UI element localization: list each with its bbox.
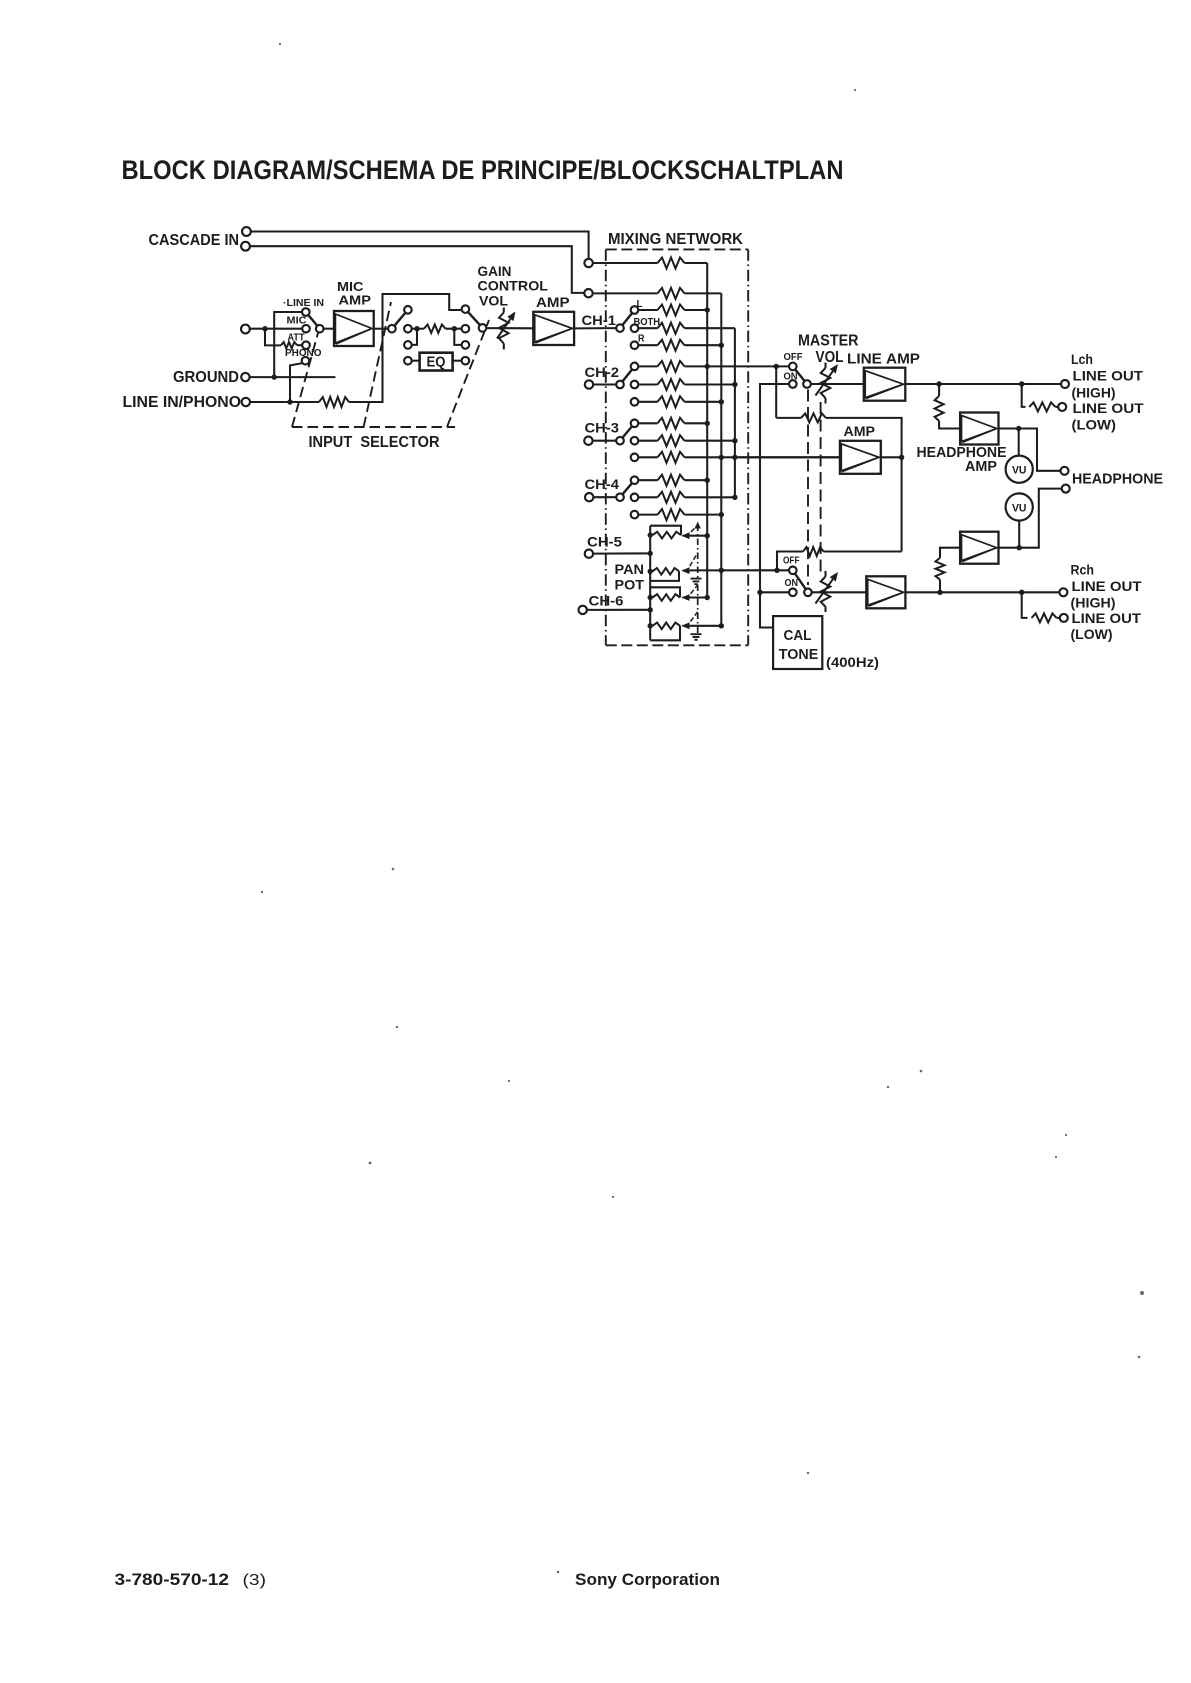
contact: MIC	[302, 325, 310, 333]
dashed outline: INPUT SELECTOR left slant	[292, 333, 318, 427]
contact: ATT	[302, 341, 310, 349]
dashed outline: mixing network left	[605, 249, 607, 645]
svg-text:INPUT SELECTOR: INPUT SELECTOR	[309, 434, 440, 451]
terminal: CH-2 input	[585, 380, 593, 388]
wire: mixing CH-4 R to bus	[685, 514, 722, 516]
contact: CH-3 L	[631, 420, 639, 428]
contact: post-amp direct	[404, 325, 412, 333]
wire: MIC AMP output	[374, 328, 388, 330]
node: cal tone to Rch ON	[757, 590, 762, 595]
wire: direct row left lead	[412, 328, 424, 330]
svg-text:VU: VU	[1012, 502, 1027, 514]
ground: pan CH-6	[691, 634, 702, 640]
pot wiper arrow: master vol Rch	[816, 579, 833, 603]
resistor: mixing CH-4 R	[658, 509, 685, 520]
node: CH-4 L at x=707.2	[705, 478, 710, 483]
svg-text:CAL: CAL	[784, 628, 812, 644]
wire: Rch hp feed resistor leads	[939, 580, 941, 593]
wire: CH-4 input to common	[593, 496, 616, 498]
terminal: cascade in lower	[241, 242, 250, 251]
svg-text:CONTROL: CONTROL	[478, 278, 549, 294]
contact: CH-4 L	[631, 476, 639, 484]
resistor: mixing CH-1 BOTH	[658, 323, 685, 334]
svg-text:ON: ON	[785, 578, 799, 589]
wire: VU2 link	[1018, 521, 1020, 548]
node: pan CH-6 L wiper bus	[705, 595, 710, 600]
wire: Rch bleed to OFF row	[777, 552, 803, 571]
wire: Lch bleed lead	[776, 417, 801, 419]
pot wiper: pan CH-6 R	[683, 625, 691, 627]
potentiometer: pan CH-6 R	[653, 623, 681, 630]
contact: post-amp EQ left	[404, 357, 412, 365]
terminal: cascade right lower	[584, 289, 592, 297]
svg-text:(HIGH): (HIGH)	[1072, 386, 1116, 402]
wire: CH-6 pot top loop	[650, 587, 680, 597]
svg-text:(LOW): (LOW)	[1072, 418, 1117, 434]
terminal: CH-6 input	[579, 606, 587, 614]
svg-text:CH-4: CH-4	[585, 477, 620, 492]
op-amp: headphone AMP Rch	[960, 532, 998, 564]
terminal: Lch line out high	[1061, 380, 1069, 388]
switch: Lch master common	[803, 380, 811, 388]
wire+resistor: mixing CH-4 L	[638, 479, 657, 481]
wire: Lch hp feed into amp	[939, 421, 960, 429]
wire: Rch hp feed into amp	[940, 548, 960, 558]
node: CH-2 L / Lch master feed at x=776.2	[774, 364, 779, 369]
wire+resistor: mixing CH-3 BOTH	[638, 440, 657, 442]
svg-text:L: L	[637, 299, 643, 310]
node: pan input vertical y=535.1	[648, 532, 653, 537]
wire: VU1 link	[1018, 429, 1020, 456]
terminal: ground	[241, 373, 249, 381]
wire: Lch bleed to common vertical	[826, 418, 902, 552]
node: VU2 tap	[1017, 545, 1022, 550]
terminal: main input jack	[241, 325, 250, 334]
wire: cascade upper run to mixing network	[251, 232, 589, 259]
wire: cascade upper into resistor	[593, 262, 658, 264]
gang link: master switch Lch-Rch dashed	[807, 390, 809, 586]
wire: pan CH-5 L wiper to bus	[691, 535, 708, 537]
resistor: cascade R mix	[658, 288, 685, 299]
svg-text:CH-2: CH-2	[585, 365, 620, 380]
terminal: Rch line out high	[1059, 588, 1067, 596]
node: CH-3 R / headphone feed at x=721.3	[719, 455, 724, 460]
resistor: mixing CH-3 BOTH	[658, 435, 685, 446]
contact: Rch master OFF	[789, 567, 797, 575]
svg-text:(3): (3)	[243, 1572, 267, 1589]
contact: pre-gain direct	[462, 325, 470, 333]
potentiometer: master vol Lch	[821, 363, 831, 404]
terminal: CH-5 input	[585, 550, 593, 558]
svg-text:(400Hz): (400Hz)	[826, 654, 879, 670]
node: pan input vertical y=571.3	[648, 569, 653, 574]
wire: LINE IN contact loop to ground bus	[274, 312, 302, 377]
dashed outline: INPUT SELECTOR middle slant	[364, 302, 391, 427]
svg-text:CH-6: CH-6	[589, 594, 624, 609]
wire: headphone feed row to AMP	[739, 456, 840, 458]
gang link: pan CH-6 dashed	[697, 585, 699, 634]
wire: pan CH-6 R wiper to bus	[691, 625, 722, 627]
resistor: mixing CH-2 BOTH	[658, 379, 685, 390]
node: CH-1 R at x=721.3	[719, 343, 724, 348]
node: pan input vertical y=597.5	[648, 595, 653, 600]
wire: cascade lower run to mixing network	[250, 246, 584, 293]
dashed outline: mixing network bottom	[606, 644, 748, 646]
svg-text:VU: VU	[1012, 465, 1027, 477]
wire: headphone mix AMP output	[881, 456, 902, 458]
wire: mixing CH-4 L to bus	[685, 479, 708, 481]
wire: mixing CH-4 BOTH to bus	[685, 496, 735, 498]
dashed outline: mixing network top	[606, 248, 748, 250]
wire: mixing CH-3 R / headphone feed to bus	[685, 456, 840, 458]
wire: Rch line out row	[905, 591, 1059, 593]
wire: direct row right lead	[446, 328, 462, 330]
svg-text:VOL: VOL	[479, 293, 508, 309]
svg-text:CASCADE IN: CASCADE IN	[149, 232, 240, 249]
wire+resistor: mixing CH-1 BOTH	[638, 327, 657, 329]
wire: mixing CH-1 L to bus	[685, 309, 708, 311]
node: direct row right junction	[452, 326, 457, 331]
node: CH-4 R at x=721.3	[719, 512, 724, 517]
svg-text:AMP: AMP	[965, 459, 997, 475]
wire: Rch low lead	[1057, 617, 1060, 619]
node: bleed at headphone amp out	[899, 455, 904, 460]
resistor: mixing CH-2 L / Lch master feed	[658, 361, 685, 372]
op-amp: headphone AMP Lch	[960, 413, 998, 445]
svg-text:ATT: ATT	[288, 333, 305, 344]
svg-text:OFF: OFF	[783, 556, 800, 567]
meter: VU Rch	[1006, 493, 1033, 520]
node: CH-1 L at x=707.2	[705, 307, 710, 312]
ground: pan CH-5	[691, 579, 702, 585]
svg-text:·LINE IN: ·LINE IN	[283, 298, 324, 309]
wire: selector common to MIC AMP	[324, 328, 335, 330]
node: phono junction	[287, 399, 292, 404]
resistor: ATT pad	[281, 342, 297, 348]
gang link: master vol pots dashed	[820, 402, 822, 575]
switch: pre-gain common	[479, 324, 487, 332]
wire+resistor: mixing CH-4 BOTH	[638, 496, 657, 498]
CAL TONE block	[773, 616, 822, 669]
wire: mixing CH-2 R to bus	[685, 401, 722, 403]
node: direct row left junction	[414, 326, 419, 331]
node: Lch hp feed	[936, 381, 941, 386]
wire: Lch master common to LINE AMP	[811, 383, 864, 385]
gang diagonal: CH-5 L	[686, 526, 697, 538]
gang diagonal: CH-5 R	[686, 553, 698, 573]
resistor: Rch low pad	[1032, 613, 1057, 622]
contact: CH-1 L	[631, 306, 639, 314]
svg-text:GROUND: GROUND	[173, 369, 239, 386]
wire: Lch bleed vertical	[775, 368, 777, 418]
switch arm: Lch master	[795, 369, 804, 381]
svg-text:3-780-570-12: 3-780-570-12	[115, 1571, 230, 1589]
svg-text:POT: POT	[615, 577, 645, 593]
svg-text:LINE OUT: LINE OUT	[1072, 611, 1142, 627]
pot wiper arrow: gain control	[497, 319, 510, 339]
svg-text:LINE OUT: LINE OUT	[1073, 369, 1144, 385]
wire: Rch ON lead	[760, 591, 789, 593]
wire: Lch hp out row	[999, 429, 1062, 471]
node: CH-4 BOTH at x=734.9	[732, 495, 737, 500]
node: CH-2 L / Lch master feed at x=707.2	[705, 364, 710, 369]
resistor: mixing CH-1 R	[658, 340, 685, 351]
pot wiper: pan CH-6 L	[683, 597, 691, 599]
wire: Rch master common to LINE AMP	[812, 591, 867, 593]
wire: AMP output to CH-1 switch	[574, 327, 616, 329]
svg-text:LINE IN/PHONO: LINE IN/PHONO	[123, 394, 242, 411]
resistor: mixing CH-1 L	[658, 305, 685, 316]
EQ block	[420, 353, 453, 371]
switch: post-amp selector common	[388, 325, 396, 333]
wire: phono contact link	[290, 363, 302, 402]
svg-text:EQ: EQ	[427, 355, 446, 371]
wire: pan pot input vertical	[649, 526, 651, 641]
switch arm: CH-3	[622, 426, 632, 438]
wire: Lch low branch	[1022, 384, 1026, 407]
resistor: Lch headphone feed	[935, 396, 944, 421]
node: CH-3 R / headphone feed at x=734.9	[732, 455, 737, 460]
terminal: line in/phono	[242, 398, 250, 406]
wire: CH-6 input to pan pot	[587, 609, 650, 611]
svg-text:R: R	[638, 334, 645, 345]
wire: EQ left lead	[412, 360, 420, 362]
node: Rch low branch	[1019, 590, 1024, 595]
node: CH-3 BOTH at x=734.9	[732, 438, 737, 443]
contact: LINE IN	[302, 308, 310, 316]
contact: CH-2 L	[631, 363, 639, 371]
svg-text:OFF: OFF	[784, 352, 803, 363]
gang diagonal: CH-6 R	[686, 612, 698, 628]
resistor: phono input series	[319, 397, 349, 407]
switch arm: CH-2	[622, 369, 632, 381]
wire: R bus vertical	[720, 293, 722, 625]
contact: pre-gain bypass	[462, 305, 470, 313]
contact: CH-3 R	[631, 454, 639, 462]
contact: post-amp link left	[404, 341, 412, 349]
wire+resistor: mixing CH-4 R	[638, 514, 657, 516]
terminal: cascade in upper	[242, 227, 251, 236]
resistor: Rch OFF bleed	[803, 547, 824, 556]
resistor: Lch OFF bleed	[801, 413, 826, 422]
switch arm: Rch master	[795, 573, 806, 589]
wire: CH-3 input to common	[593, 440, 617, 442]
wire: CH-5 pot top loop	[650, 526, 681, 535]
pot wiper: pan CH-5 R	[683, 570, 691, 572]
wire+resistor: mixing CH-3 L	[638, 422, 657, 424]
contact: CH-3 BOTH	[631, 437, 639, 445]
node: CH-2 R at x=721.3	[719, 399, 724, 404]
wire+resistor: mixing CH-3 R / headphone feed	[638, 456, 657, 458]
wire: cal tone feed vertical	[760, 384, 789, 628]
contact: CH-4 BOTH	[631, 494, 639, 502]
gang arrow: pan CH-5	[695, 522, 701, 529]
resistor: mixing CH-2 R	[658, 396, 685, 407]
wire: input jack to MIC contact	[250, 328, 302, 330]
contact: Rch master ON	[789, 589, 797, 597]
resistor: mixing CH-4 L	[658, 475, 685, 486]
op-amp: channel AMP	[533, 312, 574, 345]
potentiometer: pan CH-5 R	[653, 568, 680, 575]
svg-text:LINE AMP: LINE AMP	[847, 352, 920, 368]
wire: Rch bleed resistor row	[824, 550, 902, 552]
resistor: inter-stage pad	[424, 325, 446, 333]
contact: CH-2 R	[631, 398, 639, 406]
node: Lch low branch	[1019, 381, 1024, 386]
switch arm: input selector	[308, 315, 317, 326]
wire: pan CH-6 L wiper to bus	[691, 596, 708, 598]
svg-text:TONE: TONE	[779, 647, 819, 663]
node: pan CH-6 R wiper bus	[719, 623, 724, 628]
wire: Rch low branch	[1022, 592, 1028, 618]
op-amp: LINE AMP Rch	[866, 576, 905, 608]
gang diagonal: CH-6 L	[686, 586, 697, 600]
contact: CH-2 BOTH	[631, 381, 639, 389]
dashed outline: INPUT SELECTOR bottom	[292, 426, 455, 428]
svg-text:CH-1: CH-1	[582, 313, 617, 328]
op-amp: LINE AMP Lch	[864, 368, 906, 401]
switch: Rch master common	[804, 589, 812, 597]
switch arm: CH-1	[622, 313, 632, 325]
wire: L bus vertical	[706, 263, 708, 598]
svg-text:(HIGH): (HIGH)	[1071, 596, 1116, 612]
switch: CH-4 common	[616, 493, 624, 501]
contact: pre-gain EQ	[462, 357, 470, 365]
wire: right bent link	[454, 330, 461, 345]
switch arm: pre-gain selector	[468, 312, 480, 325]
wire: cascade L resistor to L bus	[685, 262, 708, 264]
wire: CH-5 pot bottom loop	[650, 571, 679, 581]
svg-text:MIXING NETWORK: MIXING NETWORK	[608, 231, 744, 248]
contact: PHONO	[302, 357, 310, 365]
contact: CH-1 R	[631, 341, 639, 349]
wire: phono resistor to bypass riser	[349, 294, 462, 402]
node: VU1 tap	[1016, 426, 1021, 431]
wire: CH-2 input to common	[593, 383, 616, 385]
wire: mixing CH-2 L / Lch master feed to bus	[685, 365, 790, 367]
wire: CH-5 R wiper row to Rch master OFF	[691, 569, 790, 571]
svg-text:VOL: VOL	[816, 349, 844, 366]
svg-text:Rch: Rch	[1071, 563, 1095, 579]
node: pan input vertical y=553.4	[648, 551, 653, 556]
wire: ATT resistor to contact	[297, 344, 302, 346]
meter: VU Lch	[1006, 456, 1033, 483]
terminal: cascade right upper	[584, 259, 592, 267]
wire: Lch line out row	[905, 383, 1061, 385]
wire: mixing CH-1 R to bus	[685, 344, 722, 346]
svg-text:(LOW): (LOW)	[1071, 627, 1113, 643]
switch: CH-3 common	[616, 437, 624, 445]
resistor: cascade L mix	[658, 258, 685, 269]
terminal: CH-3 input	[584, 437, 592, 445]
potentiometer: gain control vol	[499, 308, 509, 350]
node: R bus at pan wiper	[719, 568, 724, 573]
node: ground junction	[272, 374, 277, 379]
wire: ground stub	[250, 376, 336, 378]
svg-text:AMP: AMP	[844, 424, 876, 440]
switch arm: CH-4	[622, 483, 632, 494]
terminal: CH-4 input	[585, 493, 593, 501]
node: CH-3 L at x=707.2	[705, 421, 710, 426]
terminal: Lch line out low	[1058, 403, 1066, 411]
wire: mixing CH-1 BOTH to bus	[685, 327, 735, 329]
wire: BOTH bus vertical	[734, 328, 736, 497]
svg-text:BOTH: BOTH	[634, 317, 661, 328]
terminal: headphone tip	[1061, 467, 1069, 475]
node: CH-2 BOTH at x=734.9	[732, 382, 737, 387]
op-amp: MIC AMP	[334, 311, 374, 346]
svg-text:CH-3: CH-3	[585, 421, 620, 436]
wire: mixing CH-3 BOTH to bus	[685, 440, 735, 442]
resistor: Rch headphone feed	[936, 558, 945, 580]
svg-text:Lch: Lch	[1071, 352, 1093, 368]
svg-text:CH-5: CH-5	[587, 535, 622, 550]
contact: CH-1 BOTH	[631, 324, 639, 332]
wire: pre-gain common to AMP	[486, 327, 533, 329]
svg-text:MASTER: MASTER	[798, 333, 859, 350]
resistor: Lch low pad	[1029, 402, 1055, 411]
wire: EQ right lead	[453, 360, 462, 362]
contact: CH-4 R	[631, 511, 639, 519]
switch: CH-2 common	[616, 381, 624, 389]
svg-text:PAN: PAN	[615, 562, 645, 578]
pot wiper: pan CH-5 L	[683, 535, 691, 537]
potentiometer: pan CH-5 L	[653, 532, 682, 539]
contact: Lch master ON	[789, 380, 797, 388]
svg-text:Sony Corporation: Sony Corporation	[575, 1571, 720, 1589]
wire: line in/phono lead	[250, 401, 319, 403]
wire: Lch hp feed resistor leads	[938, 384, 940, 396]
wire: ATT branch with pad resistor	[265, 329, 281, 346]
node: input junction	[262, 326, 267, 331]
wire: mixing CH-2 BOTH to bus	[685, 383, 735, 385]
terminal: Rch line out low	[1060, 614, 1068, 622]
node: pan input vertical y=625.8	[648, 623, 653, 628]
wire: CH-5 input to pan pot	[593, 552, 650, 554]
dashed outline: INPUT SELECTOR right slant	[447, 320, 489, 427]
svg-text:HEADPHONE: HEADPHONE	[1072, 472, 1163, 488]
node: Rch bleed junction	[774, 568, 779, 573]
wire: left bent link	[412, 330, 417, 345]
dashed outline: mixing network right	[747, 249, 749, 645]
wire: headphone ring to Rch hp out	[999, 489, 1062, 548]
op-amp: headphone mix AMP	[840, 441, 881, 474]
contact: post-amp NC	[404, 306, 412, 314]
svg-text:BLOCK DIAGRAM/SCHEMA DE PRINCI: BLOCK DIAGRAM/SCHEMA DE PRINCIPE/BLOCKSC…	[122, 155, 844, 185]
switch: CH-1 common	[616, 324, 624, 332]
switch: input selector common	[316, 325, 324, 333]
svg-text:AMP: AMP	[339, 293, 372, 308]
wire+resistor: mixing CH-2 L / Lch master feed	[638, 365, 657, 367]
wire: CH-6 pot bottom loop	[650, 626, 680, 641]
pot wiper arrow: master vol Lch	[816, 371, 833, 395]
contact: pre-gain link right	[462, 341, 470, 349]
node: Rch hp feed	[937, 590, 942, 595]
wire+resistor: mixing CH-2 R	[638, 401, 657, 403]
potentiometer: pan CH-6 L	[653, 594, 681, 601]
wire+resistor: mixing CH-1 R	[638, 344, 657, 346]
wire+resistor: mixing CH-1 L	[638, 309, 657, 311]
wire: mixing CH-3 L to bus	[685, 422, 708, 424]
wire: cascade R resistor to R bus	[685, 292, 722, 294]
gang link: pan CH-5 dashed	[697, 525, 699, 579]
switch arm: post-amp selector	[394, 313, 405, 326]
node: pan CH-5 L wiper bus	[705, 533, 710, 538]
node: pan input vertical y=609.8	[648, 607, 653, 612]
resistor: mixing CH-3 R / headphone feed	[658, 452, 685, 463]
wire: Lch low lead	[1055, 406, 1058, 408]
resistor: mixing CH-4 BOTH	[658, 492, 685, 503]
